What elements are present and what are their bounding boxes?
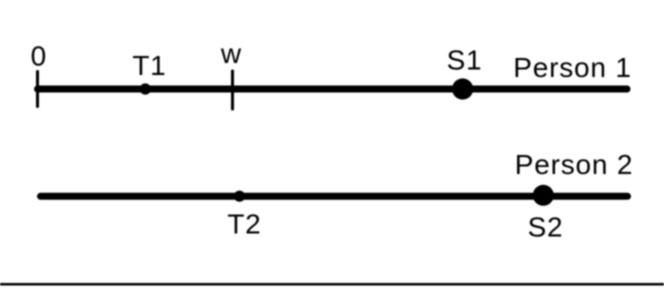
wire: Person 2 timeline — [41, 193, 628, 200]
node S2: large dot — [533, 185, 554, 206]
svg-text:S2: S2 — [528, 212, 564, 243]
svg-text:S1: S1 — [447, 45, 483, 76]
svg-text:Person 2: Person 2 — [515, 149, 633, 180]
svg-text:T2: T2 — [227, 209, 261, 240]
node w: tick mark — [231, 71, 234, 109]
node T2: small dot — [234, 191, 245, 202]
svg-text:Person 1: Person 1 — [513, 52, 631, 83]
svg-text:0: 0 — [31, 41, 47, 72]
node T1: small dot — [140, 83, 151, 94]
svg-text:T1: T1 — [132, 50, 166, 81]
node S1: large dot — [452, 78, 473, 99]
wire: bottom rule — [0, 283, 664, 286]
svg-text:w: w — [220, 38, 242, 69]
wire: Person 1 timeline — [38, 86, 628, 93]
node 0: origin tick — [36, 72, 39, 107]
